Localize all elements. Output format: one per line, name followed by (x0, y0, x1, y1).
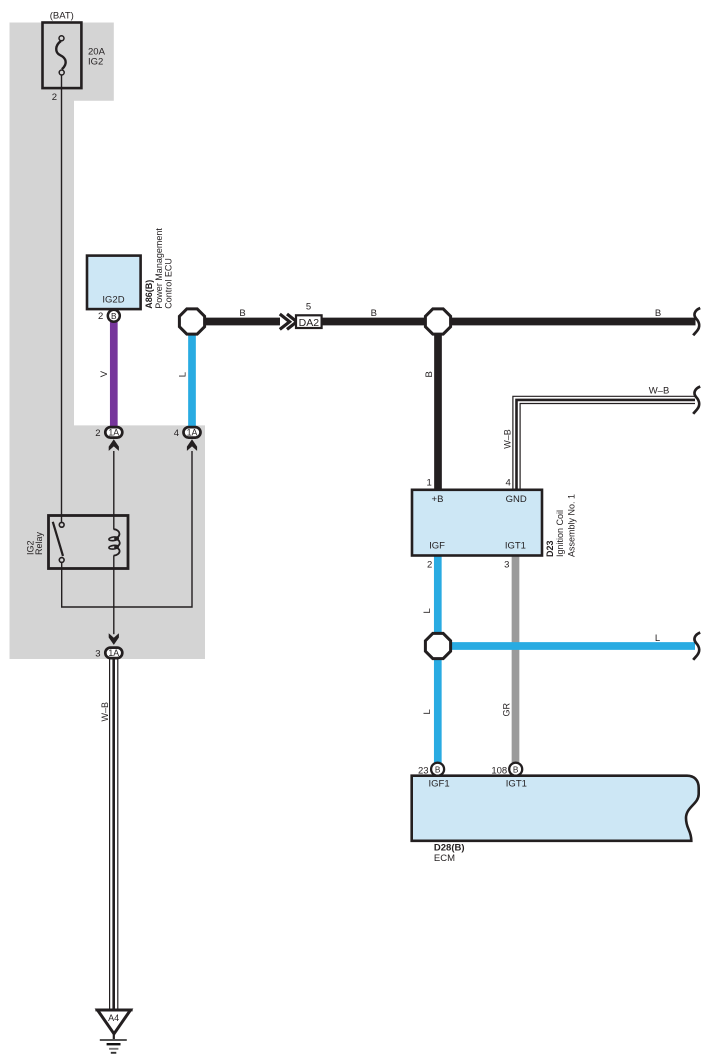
svg-text:IGF1: IGF1 (429, 779, 450, 790)
svg-text:Assembly No. 1: Assembly No. 1 (567, 494, 577, 557)
svg-text:W–B: W–B (649, 386, 670, 397)
svg-text:2: 2 (98, 311, 103, 322)
svg-text:L: L (178, 372, 189, 377)
svg-text:108: 108 (491, 765, 507, 776)
svg-text:L: L (655, 633, 660, 644)
svg-text:1A: 1A (187, 428, 198, 438)
svg-text:1: 1 (427, 477, 432, 488)
svg-text:IGT1: IGT1 (506, 779, 527, 790)
svg-text:IGT1: IGT1 (505, 540, 526, 551)
svg-text:B: B (111, 311, 117, 321)
svg-text:4: 4 (506, 477, 511, 488)
svg-text:B: B (513, 765, 519, 775)
svg-text:Control ECU: Control ECU (163, 258, 173, 309)
svg-text:ECM: ECM (434, 853, 455, 864)
svg-text:B: B (424, 371, 435, 377)
svg-text:GND: GND (506, 494, 527, 505)
svg-text:A86(B): A86(B) (144, 280, 154, 309)
svg-text:D23: D23 (545, 540, 555, 557)
svg-text:A4: A4 (108, 1013, 119, 1023)
svg-text:23: 23 (418, 765, 429, 776)
svg-text:2: 2 (95, 428, 100, 439)
svg-text:B: B (239, 308, 245, 319)
svg-text:2: 2 (52, 92, 57, 103)
svg-text:3: 3 (95, 649, 100, 660)
svg-text:3: 3 (504, 560, 509, 571)
svg-text:2: 2 (427, 560, 432, 571)
svg-text:L: L (422, 709, 433, 714)
svg-text:B: B (435, 765, 441, 775)
svg-text:W–B: W–B (503, 429, 513, 449)
svg-text:L: L (422, 608, 433, 613)
svg-text:IG2D: IG2D (102, 295, 124, 306)
svg-text:Ignition Coil: Ignition Coil (555, 510, 565, 557)
svg-text:+B: +B (432, 494, 444, 505)
svg-text:IG2: IG2 (88, 56, 103, 67)
svg-text:4: 4 (174, 428, 179, 439)
svg-text:5: 5 (306, 301, 311, 312)
svg-text:V: V (99, 370, 110, 377)
svg-text:Relay: Relay (34, 531, 44, 555)
svg-text:1A: 1A (108, 648, 119, 658)
svg-text:B: B (371, 308, 377, 319)
svg-text:DA2: DA2 (299, 317, 320, 329)
svg-text:W–B: W–B (100, 702, 110, 722)
svg-text:(BAT): (BAT) (50, 10, 74, 21)
svg-text:IGF: IGF (429, 540, 445, 551)
svg-text:GR: GR (501, 702, 511, 716)
svg-text:B: B (655, 308, 661, 319)
svg-text:1A: 1A (108, 428, 119, 438)
